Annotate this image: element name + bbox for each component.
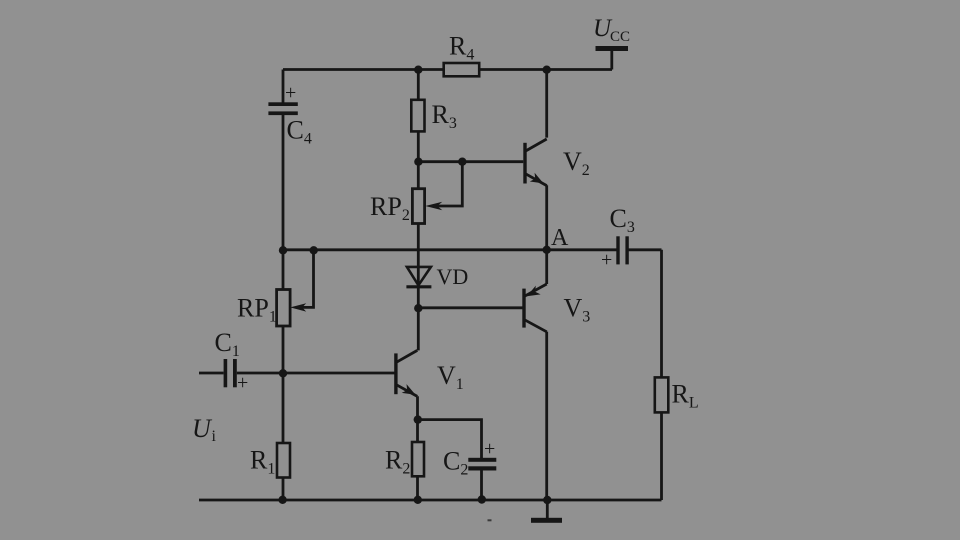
- svg-text:+: +: [601, 249, 612, 271]
- resistor R3: [411, 100, 424, 132]
- svg-text:A: A: [551, 225, 569, 251]
- transistor V3 (PNP): [524, 284, 590, 332]
- node C1 right: [279, 369, 287, 377]
- capacitor C1: [224, 359, 237, 387]
- wire VD to V1 collector: [417, 287, 420, 350]
- wire ground stem: [546, 500, 549, 519]
- wire bottom horizontal: [199, 499, 662, 502]
- Ucc terminal: [596, 46, 629, 51]
- wire RP1 wiper: [301, 250, 314, 307]
- node A: [543, 246, 551, 254]
- wire V2 base: [418, 160, 523, 163]
- wire top horizontal: [283, 68, 612, 71]
- transistor V2: [525, 139, 590, 186]
- wire input: [199, 372, 224, 375]
- resistor R1: [277, 443, 290, 478]
- wire V3 base: [418, 306, 523, 309]
- node R3 bottom: [414, 158, 422, 166]
- capacitor C4: [268, 102, 297, 115]
- wire V1 emitter vertical: [416, 396, 419, 500]
- speck artifact: [488, 519, 492, 521]
- node RP1 wiper top: [310, 246, 318, 254]
- node ground: [543, 496, 551, 504]
- potentiometer RP1: [277, 290, 291, 327]
- wire C2 branch: [418, 420, 482, 458]
- transistor V1: [396, 350, 464, 396]
- node V1 emitter: [414, 415, 422, 423]
- svg-text:+: +: [237, 372, 248, 394]
- capacitor C3: [616, 236, 629, 264]
- wire C3 right to corner: [628, 248, 661, 251]
- potentiometer RP2: [412, 189, 424, 224]
- resistor RL: [655, 377, 669, 412]
- node R1 bottom: [278, 496, 286, 504]
- wire left vertical: [282, 70, 285, 103]
- wire V2 emitter to node A to V3 emitter: [545, 185, 548, 284]
- svg-text:VD: VD: [437, 264, 469, 289]
- node R2 bottom: [414, 496, 422, 504]
- wire Ucc vertical: [610, 49, 613, 70]
- capacitor C2: [468, 458, 496, 471]
- svg-text:U: U: [192, 414, 213, 443]
- node top V2 collector: [543, 66, 551, 74]
- resistor R2: [412, 442, 424, 476]
- node mid left: [279, 246, 287, 254]
- diode VD: [407, 267, 431, 285]
- svg-text:i: i: [212, 428, 217, 445]
- node top R3: [414, 66, 422, 74]
- svg-text:+: +: [285, 82, 296, 104]
- wire mid horizontal: [283, 248, 617, 251]
- junction dots: [278, 66, 551, 505]
- svg-text:CC: CC: [610, 29, 630, 45]
- svg-text:+: +: [484, 438, 495, 460]
- node C2 bottom: [478, 495, 486, 503]
- wire R3 chain vertical: [417, 70, 420, 286]
- wire RP2 wiper: [436, 162, 462, 206]
- node RP2 wiper top: [458, 158, 466, 166]
- wire V2 collector vertical: [545, 70, 548, 138]
- wire right vertical RL: [660, 250, 663, 500]
- node VD bottom: [414, 304, 422, 312]
- resistor R4: [444, 63, 480, 76]
- ground: [531, 518, 562, 523]
- wire V3 collector vertical to ground: [545, 332, 548, 500]
